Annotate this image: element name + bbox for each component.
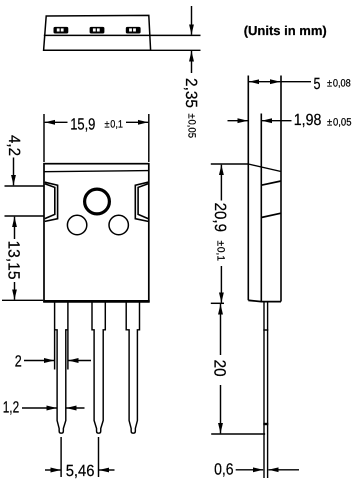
svg-text:± 0,1: ± 0,1 [105,118,124,130]
svg-text:4,2: 4,2 [5,135,23,156]
svg-text:2,35: 2,35 [182,78,200,108]
svg-text:± 0,05: ± 0,05 [185,114,197,139]
svg-text:1,2: 1,2 [3,399,20,417]
svg-text:13,15: 13,15 [4,241,22,280]
svg-text:0,6: 0,6 [214,461,234,479]
svg-text:(Units in mm): (Units in mm) [244,23,327,38]
svg-text:± 0,05: ± 0,05 [327,116,352,128]
svg-text:5,46: 5,46 [66,462,95,480]
svg-text:± 0,1: ± 0,1 [215,241,227,262]
svg-text:20: 20 [211,360,229,377]
svg-text:20,9: 20,9 [211,203,229,232]
svg-text:2: 2 [15,353,22,371]
svg-text:5: 5 [314,75,321,93]
svg-text:1,98: 1,98 [294,111,322,129]
svg-text:15,9: 15,9 [70,115,95,133]
svg-text:± 0,08: ± 0,08 [327,78,351,90]
